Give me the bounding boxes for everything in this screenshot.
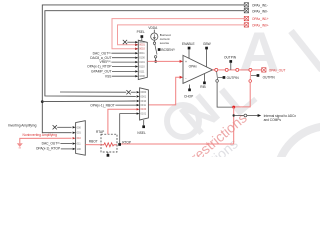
pin ENABLE: [188, 47, 191, 50]
pin resistor bottom: [107, 152, 109, 154]
svg-text:011: 011: [77, 142, 82, 146]
svg-text:0001: 0001: [141, 94, 147, 98]
svg-text:0000: 0000: [141, 90, 147, 94]
switch to OUTPIN-bar path: [216, 71, 219, 79]
svg-text:DAC_OUT(4): DAC_OUT(4): [93, 51, 112, 55]
svg-text:0010: 0010: [139, 47, 145, 51]
svg-text:010: 010: [77, 136, 82, 140]
switch BCSEN: [153, 42, 155, 44]
wire OPAx_IN1+: [112, 19, 244, 49]
svg-text:GBW: GBW: [203, 42, 211, 46]
pin CHOP: [188, 89, 191, 92]
svg-text:OPAx_OUT: OPAx_OUT: [269, 69, 286, 73]
X no-connect NSEL: [126, 90, 130, 94]
wire OPAx_IN0-: [45, 11, 244, 97]
svg-text:RTOP: RTOP: [122, 141, 131, 145]
mux PSEL input arrows: [135, 41, 138, 50]
svg-text:000: 000: [77, 125, 82, 129]
svg-text:PSEL: PSEL: [137, 30, 145, 34]
svg-text:OUTPIN: OUTPIN: [227, 76, 240, 80]
wire RTOP to NSEL 0101: [120, 114, 138, 143]
svg-text:OPAx_IN0-: OPAx_IN0-: [252, 9, 268, 13]
wire feedback down: [233, 107, 235, 144]
mux RBOT select: [76, 121, 86, 156]
svg-text:0100: 0100: [141, 107, 147, 111]
pin OUTPIN right: [257, 74, 260, 77]
pin BCSEN: [158, 48, 161, 51]
pin GBW: [205, 47, 208, 50]
wire NSEL output to -input: [149, 77, 180, 105]
pad OPAx_IN1-: [244, 3, 248, 7]
junction burnout on +input: [154, 60, 157, 63]
pad OPAx_IN0-: [244, 9, 248, 13]
watermark: [167, 20, 320, 234]
wire NSEL row 0000 stub: [60, 91, 126, 93]
svg-text:0110: 0110: [139, 64, 145, 68]
burnout current source: [153, 30, 155, 33]
wire op-amp output: [213, 69, 215, 71]
wire internal signal: [234, 115, 244, 117]
svg-text:DAC_OUT(4): DAC_OUT(4): [42, 142, 61, 146]
mux RBOT input arrows: [73, 126, 76, 150]
node internal tap: [233, 114, 235, 116]
switch output to feedback: [249, 71, 251, 79]
svg-text:OPAx: OPAx: [189, 65, 197, 69]
node RTOP: [118, 143, 121, 146]
svg-text:+: +: [185, 60, 187, 64]
wire RTAP: [108, 109, 138, 134]
svg-text:A: A: [239, 20, 279, 83]
node feedback junction: [232, 106, 235, 109]
svg-text:Inverting Amplifying: Inverting Amplifying: [8, 124, 37, 128]
svg-text:0001: 0001: [139, 43, 145, 47]
svg-text:0101: 0101: [139, 60, 145, 64]
wire mux to RBOT: [85, 144, 101, 146]
pin RIB: [203, 82, 206, 85]
pin NSEL: [143, 120, 145, 125]
svg-text:Noninverting Amplifying: Noninverting Amplifying: [23, 133, 58, 137]
op-amp OPAx: [183, 55, 213, 83]
svg-text:100: 100: [77, 147, 82, 151]
svg-text:NSEL: NSEL: [137, 131, 146, 135]
pad OPAx_IN1+: [244, 16, 248, 20]
X no-connect bottom mux: [53, 125, 57, 129]
mux NSEL row labels: [141, 90, 147, 115]
svg-text:VDDA: VDDA: [148, 26, 158, 30]
svg-text:and COMPs: and COMPs: [264, 118, 282, 122]
pin PSEL: [141, 35, 144, 38]
svg-text:0011: 0011: [141, 103, 147, 107]
svg-text:ENABLE: ENABLE: [182, 42, 195, 46]
mux NSEL input arrows: [137, 91, 140, 115]
junction IN1- to NSEL 0010: [41, 100, 44, 103]
svg-text:0101: 0101: [141, 112, 147, 116]
svg-text:RTAP: RTAP: [96, 130, 104, 134]
svg-text:0111: 0111: [139, 69, 145, 73]
svg-text:OPA(x-1)_RTOP: OPA(x-1)_RTOP: [36, 147, 61, 151]
svg-text:GPAMP_OUT: GPAMP_OUT: [91, 70, 111, 74]
svg-text:RIB: RIB: [200, 85, 205, 89]
ground noninverting: [20, 138, 72, 143]
wire OPAx_IN0+: [118, 25, 245, 45]
svg-text:0100: 0100: [139, 56, 145, 60]
svg-text:OPA(x-1)_RBOT: OPA(x-1)_RBOT: [90, 103, 115, 107]
svg-text:001: 001: [77, 131, 82, 135]
svg-text:OPAx_IN1-: OPAx_IN1-: [252, 3, 268, 7]
pad OPAx_IN0+: [244, 23, 248, 27]
resistor zigzag: [101, 143, 117, 147]
svg-text:CHOP: CHOP: [184, 94, 193, 98]
svg-text:OUTPIN: OUTPIN: [263, 75, 276, 79]
pad OPAx_OUT: [262, 68, 266, 72]
svg-text:OPAx_IN1+: OPAx_IN1+: [252, 17, 269, 21]
svg-text:VSS: VSS: [105, 74, 112, 78]
wire IN1- branch to NSEL row 0010: [42, 100, 136, 103]
resistor RTOP/RBOT dashed box: [101, 134, 117, 152]
wire OPAx_IN1-: [42, 5, 244, 133]
mux PSEL row labels: [139, 40, 145, 78]
svg-text:OPAx_IN0+: OPAx_IN0+: [252, 23, 269, 27]
mux NSEL: [140, 88, 149, 120]
wire PSEL output to +input: [147, 60, 180, 62]
X no-connect PSEL row 0000: [123, 40, 127, 44]
svg-text:1000: 1000: [139, 74, 145, 78]
pin OUTPIN-bar: [223, 76, 226, 79]
svg-text:0011: 0011: [139, 51, 145, 55]
svg-text:OUTPIN: OUTPIN: [224, 56, 237, 60]
wire feedback to RTOP: [121, 143, 234, 145]
svg-text:RBOT: RBOT: [89, 139, 98, 143]
mux RBOT row labels: [77, 125, 82, 151]
svg-text:DAC8_a_OUT: DAC8_a_OUT: [90, 56, 111, 60]
svg-text:source: source: [160, 41, 170, 45]
svg-text:OPA(x-1)_RTOP: OPA(x-1)_RTOP: [87, 65, 112, 69]
mux PSEL: [138, 40, 147, 79]
svg-text:0010: 0010: [141, 99, 147, 103]
